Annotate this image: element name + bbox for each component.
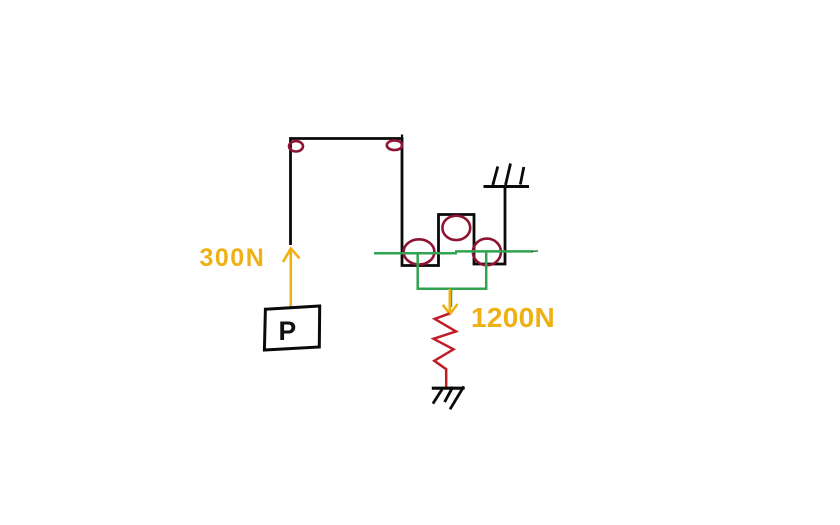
svg-text:P: P [279,316,297,346]
svg-text:1200N: 1200N [471,302,555,333]
svg-text:300N: 300N [200,244,266,272]
